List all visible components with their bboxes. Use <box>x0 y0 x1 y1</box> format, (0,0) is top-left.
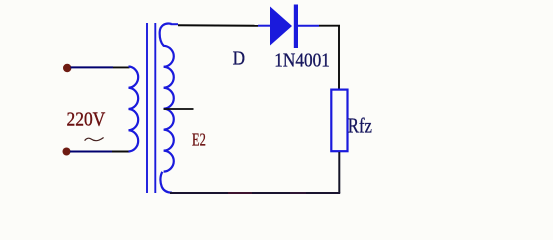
svg-text:D: D <box>233 48 245 70</box>
svg-text:220V: 220V <box>67 109 106 131</box>
svg-text:Rfz: Rfz <box>348 113 372 137</box>
svg-text:E2: E2 <box>192 129 206 149</box>
svg-text:1N4001: 1N4001 <box>274 49 330 71</box>
